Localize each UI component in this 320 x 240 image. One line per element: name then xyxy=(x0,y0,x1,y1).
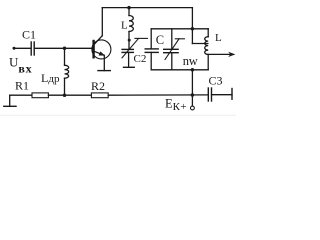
node tank top junction dot xyxy=(191,27,195,31)
resistor R1 xyxy=(32,93,48,98)
wire C1 to base xyxy=(35,47,93,49)
wire output arrow xyxy=(208,53,231,55)
wire R2 to C3 xyxy=(108,94,208,96)
inductor Ldr xyxy=(65,65,69,78)
wire emitter down xyxy=(103,55,105,70)
ground C2 xyxy=(128,52,130,67)
wire top rail xyxy=(102,7,192,9)
inductor L2 (output coil) xyxy=(207,29,209,37)
ground emitter bar xyxy=(98,70,110,72)
resistor R2 xyxy=(91,93,108,98)
wire tank bottom line xyxy=(151,69,208,71)
wire Ek vertical from tank bottom to terminal xyxy=(191,70,193,106)
terminal Ek+ circle xyxy=(191,106,195,110)
capacitor trimmer (middle branch of tank) xyxy=(171,29,173,50)
node tank bottom junction dot xyxy=(191,68,195,72)
wire R1 to R2 xyxy=(48,94,91,96)
ground input xyxy=(9,95,11,106)
svg-text:Lдр: Lдр xyxy=(41,71,60,85)
node rail junction dot xyxy=(191,93,195,97)
capacitor C (left branch of tank) xyxy=(150,29,152,49)
wire L1 to C2 xyxy=(128,32,130,50)
wire tank top line xyxy=(151,28,208,30)
scan artifact line bottom xyxy=(0,114,236,116)
wire coil tap horizontal xyxy=(192,43,208,45)
node L1/C2 junction dot xyxy=(128,39,131,42)
node input terminal dot xyxy=(13,47,16,50)
capacitor C1 xyxy=(31,42,34,55)
svg-text:nw: nw xyxy=(183,54,198,68)
terminal output bar xyxy=(231,89,233,100)
wire L1 upper lead xyxy=(128,8,130,16)
node junction base/Ldr dot xyxy=(63,47,67,51)
wire Ldr upper lead xyxy=(64,48,66,65)
node rail/Ldr dot xyxy=(63,93,67,97)
svg-text:C: C xyxy=(156,33,164,47)
inductor L1 xyxy=(129,16,133,32)
wire collector up xyxy=(101,8,103,36)
svg-text:C2: C2 xyxy=(134,53,147,65)
capacitor C3 xyxy=(208,88,211,101)
wire bottom rail xyxy=(10,94,32,96)
wire Ldr lower lead xyxy=(64,78,66,95)
wire input to C1 xyxy=(14,47,31,49)
transistor VT1 xyxy=(92,36,111,59)
svg-text:C1: C1 xyxy=(22,28,36,42)
svg-text:C3: C3 xyxy=(209,74,223,88)
svg-text:L: L xyxy=(215,32,222,44)
wire right vertical feed from top rail to coil tap xyxy=(191,8,193,44)
svg-text:R2: R2 xyxy=(91,79,105,93)
capacitor C2 trimmer arrow xyxy=(122,39,138,58)
svg-text:L: L xyxy=(121,20,128,32)
svg-text:R1: R1 xyxy=(15,79,29,93)
node top rail / L1 dot xyxy=(127,6,131,10)
capacitor C2 trimmer plates xyxy=(122,49,133,52)
